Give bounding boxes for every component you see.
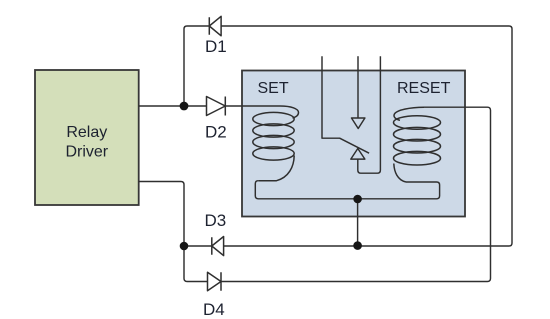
svg-text:D1: D1: [205, 37, 227, 56]
RESET coil turn 2: [394, 127, 441, 141]
wire node A to D2: [184, 105, 207, 107]
wire D1 to right rail: [221, 26, 512, 246]
SET coil turn 2: [253, 124, 294, 137]
wire driver top output to node A: [139, 105, 184, 107]
SET coil turn 1: [253, 112, 294, 125]
RESET coil L2 exit curve: [394, 164, 406, 183]
svg-text:RESET: RESET: [397, 80, 451, 97]
common rail junction dot: [353, 241, 362, 250]
diode D3: [212, 237, 224, 256]
svg-text:D4: D4: [203, 300, 225, 319]
SET coil turn 4: [253, 147, 294, 160]
switch NO contact wire: [358, 56, 381, 173]
wire node B to D3: [184, 245, 212, 247]
svg-text:SET: SET: [258, 80, 289, 97]
switch common pole wire: [322, 56, 369, 153]
coil common junction dot: [353, 195, 362, 204]
switch NC contact arrow: [352, 118, 365, 129]
RESET coil turn 3: [394, 139, 441, 153]
diode D1: [209, 16, 221, 36]
svg-text:D3: D3: [205, 211, 227, 230]
wire D2 into SET coil: [225, 105, 280, 107]
wire driver bottom output down to D4: [139, 182, 208, 282]
wire coil common bus: [255, 181, 439, 199]
RESET coil turn 4: [394, 151, 441, 165]
switch NC contact wire: [357, 56, 359, 118]
svg-text:D2: D2: [205, 123, 227, 142]
relay driver block U1: [35, 70, 139, 205]
svg-text:Driver: Driver: [65, 144, 108, 161]
SET coil exit curve: [258, 156, 294, 181]
SET coil turn 3: [253, 135, 294, 148]
diode D2: [207, 97, 226, 116]
svg-text:Relay: Relay: [66, 124, 107, 141]
RESET coil turn 1: [394, 116, 441, 130]
latching relay body K1: [242, 71, 465, 217]
wire node A up to D1: [184, 26, 209, 106]
wire relay common stem: [357, 199, 359, 246]
switch NO contact arrow: [351, 149, 365, 160]
node A junction dot: [180, 102, 189, 111]
RESET coil entry curve: [394, 107, 424, 120]
SET coil L1 entry curve: [280, 106, 299, 118]
node B junction dot: [180, 242, 189, 251]
wire RESET coil to right: [221, 107, 491, 281]
diode D4: [208, 272, 222, 290]
